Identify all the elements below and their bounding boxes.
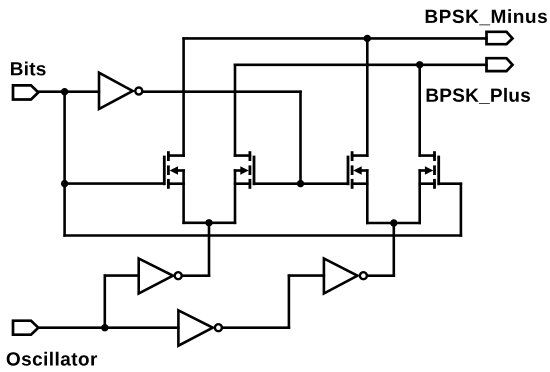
wire pair1 sources to U2 output [208, 223, 211, 276]
junction dot inverted bits [297, 180, 304, 187]
label Bits [11, 62, 46, 76]
junction dot pair1 sources [205, 219, 212, 226]
inverter U1 [99, 73, 142, 109]
port BPSK_Plus [487, 58, 513, 71]
inverter U3 [178, 310, 222, 345]
junction dot Bits [61, 88, 68, 95]
wire bottom rail [65, 234, 461, 237]
wire pair1 source bottom [184, 222, 235, 225]
wire U3 output [222, 326, 289, 329]
transistor M2 [235, 151, 254, 189]
label BPSK_Plus [427, 88, 530, 104]
port Oscillator [13, 321, 38, 335]
port BPSK_Minus [487, 32, 513, 44]
wire M3 source down [366, 171, 369, 224]
wire M4 drain feed [418, 65, 421, 156]
wire to U2 input [105, 274, 139, 277]
wire M3 drain feed [366, 38, 369, 155]
wire M2 gate to M3 gate [254, 182, 348, 185]
wire Bits vertical to bottom rail [63, 184, 66, 236]
wire Bits to M1 gate [65, 182, 165, 185]
transistor M4 [420, 151, 439, 189]
label Oscillator [7, 352, 97, 366]
wire BPSK_Minus line [184, 37, 487, 40]
wire U4 output horizontal [367, 274, 393, 277]
wire U3 output up [288, 276, 291, 328]
junction dot BPSK_Plus M4 [416, 61, 423, 68]
wire Oscillator up to U2 input level [104, 276, 107, 328]
wire BPSK_Plus line [235, 64, 487, 67]
junction dot Bits gate branch [61, 180, 68, 187]
wire to U4 input [289, 274, 324, 277]
transistor M3 [348, 151, 367, 189]
wire U1 output vertical down [299, 92, 302, 184]
wire pair2 source bottom [367, 222, 419, 225]
wire M2 source down [234, 171, 237, 223]
wire M1 source down [182, 171, 185, 223]
wire M2 drain feed [234, 65, 237, 156]
wire Bits port to inverter U1 input [38, 90, 99, 93]
junction dot Oscillator [101, 324, 108, 331]
port Bits [13, 85, 38, 99]
label BPSK_Minus [426, 9, 547, 25]
wire Bits vertical down [63, 92, 66, 184]
wire Oscillator port to U3 input [38, 326, 178, 329]
wire U2 output horizontal [182, 274, 209, 277]
wire bottom rail up to M4 gate level [460, 184, 463, 236]
junction dot pair2 sources [390, 219, 397, 226]
wire to M4 gate [439, 182, 461, 185]
wire pair2 sources to U4 output [392, 223, 395, 276]
wire U1 output [143, 90, 301, 93]
transistor M1 [164, 151, 183, 189]
wire M1 drain feed [182, 38, 185, 155]
junction dot BPSK_Minus M3 [364, 35, 371, 42]
inverter U2 [139, 259, 182, 294]
inverter U4 [324, 259, 367, 294]
wire M4 source down [418, 171, 421, 224]
